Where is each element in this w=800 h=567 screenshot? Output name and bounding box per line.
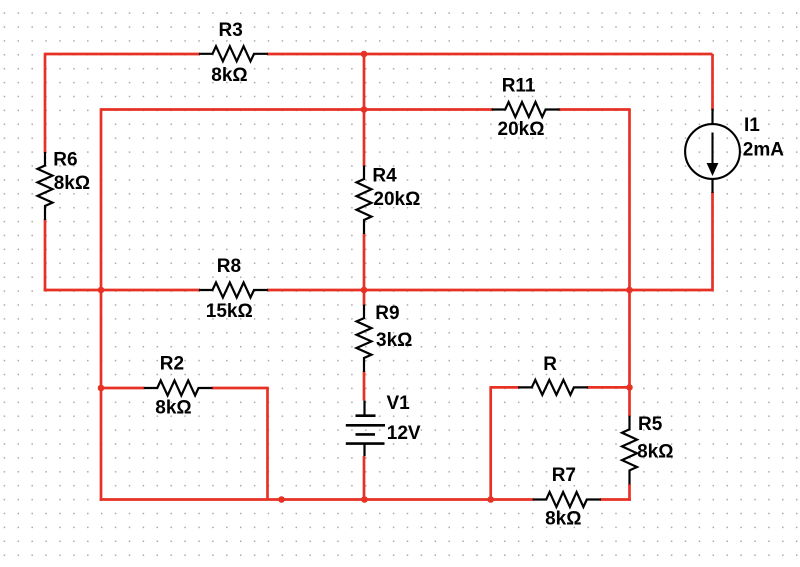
- node bottom bus c (junction dot): [487, 496, 494, 503]
- wire vertical x629 below R5: [628, 484, 631, 501]
- svg-text:8kΩ: 8kΩ: [637, 441, 673, 462]
- svg-text:R2: R2: [160, 353, 184, 374]
- svg-text:15kΩ: 15kΩ: [206, 301, 253, 322]
- wire bottom bus right of R7: [600, 498, 631, 501]
- current source I1 bottom lead: [711, 179, 713, 193]
- svg-text:R5: R5: [638, 414, 663, 435]
- battery V1 plate 3 (short): [356, 433, 376, 436]
- node R line / x629 (junction dot): [626, 384, 633, 391]
- svg-text:R9: R9: [375, 303, 399, 324]
- wire mid-left horizontal y290 to R8: [44, 289, 200, 292]
- resistor R3: [199, 46, 268, 61]
- wire R2 wire left: [101, 387, 145, 390]
- svg-text:20kΩ: 20kΩ: [373, 189, 420, 210]
- svg-text:R8: R8: [217, 256, 241, 277]
- battery V1 bottom lead: [363, 444, 365, 456]
- node y290 / x101 (junction dot): [98, 287, 105, 294]
- node y290 / x364 (junction dot): [361, 287, 368, 294]
- svg-text:8kΩ: 8kΩ: [545, 508, 581, 529]
- svg-text:I1: I1: [744, 115, 760, 136]
- svg-text:3kΩ: 3kΩ: [376, 330, 412, 351]
- svg-text:8kΩ: 8kΩ: [155, 397, 191, 418]
- node bottom bus b (junction dot): [361, 496, 368, 503]
- resistor R11: [492, 102, 560, 117]
- resistor R (unnamed value): [518, 380, 588, 395]
- svg-text:8kΩ: 8kΩ: [54, 173, 90, 194]
- svg-text:R4: R4: [372, 166, 397, 187]
- svg-text:R7: R7: [552, 465, 576, 486]
- wire R wire left: [491, 386, 519, 389]
- node y290 / x629 (junction dot): [626, 287, 633, 294]
- wire right vertical above I1: [711, 54, 714, 110]
- wire R2 wire right: [212, 387, 268, 390]
- resistor R2: [144, 381, 213, 396]
- wire top bus right of R3: [267, 53, 713, 56]
- wire vertical x364 R4 to R9: [363, 234, 366, 306]
- battery V1 plate 4 (long): [346, 442, 385, 445]
- node R2 line / x101 (junction dot): [98, 385, 105, 392]
- resistor R5: [622, 416, 637, 485]
- battery V1 plate 2 (long): [346, 424, 385, 427]
- resistor R4: [357, 166, 372, 235]
- wire vertical x364 V1 to bottom bus: [363, 456, 366, 501]
- wire vertical x629 R11 down to R5: [628, 108, 631, 416]
- svg-text:R3: R3: [219, 20, 243, 41]
- current source I1 circle: [685, 124, 740, 179]
- svg-text:R6: R6: [53, 150, 77, 171]
- svg-text:8kΩ: 8kΩ: [211, 65, 247, 86]
- resistor R9: [357, 305, 372, 372]
- wire left vertical below R6: [44, 219, 47, 291]
- wire horizontal y290 R8 to right: [267, 289, 713, 292]
- current source I1 arrow head: [707, 163, 719, 176]
- current source I1 top lead: [711, 109, 713, 124]
- resistor R8: [199, 283, 268, 298]
- wire vertical x490 left of R: [489, 386, 492, 501]
- battery V1 top lead: [363, 401, 365, 416]
- wire right vertical below I1: [711, 192, 714, 291]
- svg-text:2mA: 2mA: [743, 140, 784, 161]
- wire vertical x364 R9 to V1: [363, 371, 366, 401]
- svg-text:R11: R11: [502, 76, 536, 97]
- wire left vertical above R6: [44, 53, 47, 153]
- node second bus / x364 (junction dot): [361, 106, 368, 113]
- wire second bus y109 right of R11: [559, 108, 630, 111]
- svg-text:12V: 12V: [387, 423, 421, 444]
- resistor R7: [533, 492, 601, 507]
- svg-text:20kΩ: 20kΩ: [498, 119, 545, 140]
- wire top bus left of R3: [45, 53, 200, 56]
- current source I1 arrow shaft: [711, 133, 713, 166]
- wire vertical x267 below R2: [266, 387, 269, 500]
- svg-text:R: R: [543, 354, 557, 375]
- wire left vertical x101: [100, 108, 103, 501]
- resistor R6: [38, 152, 53, 220]
- wire bottom bus left of R7: [100, 498, 534, 501]
- wire R wire right: [587, 386, 630, 389]
- battery V1 plate 1 (short): [356, 414, 376, 417]
- wire vertical x364 top to R4: [363, 54, 366, 166]
- wire second bus y109 left of R11: [101, 108, 493, 111]
- svg-text:V1: V1: [387, 393, 411, 414]
- node bottom bus a (junction dot): [278, 496, 285, 503]
- node top bus / x364 (junction dot): [361, 51, 368, 58]
